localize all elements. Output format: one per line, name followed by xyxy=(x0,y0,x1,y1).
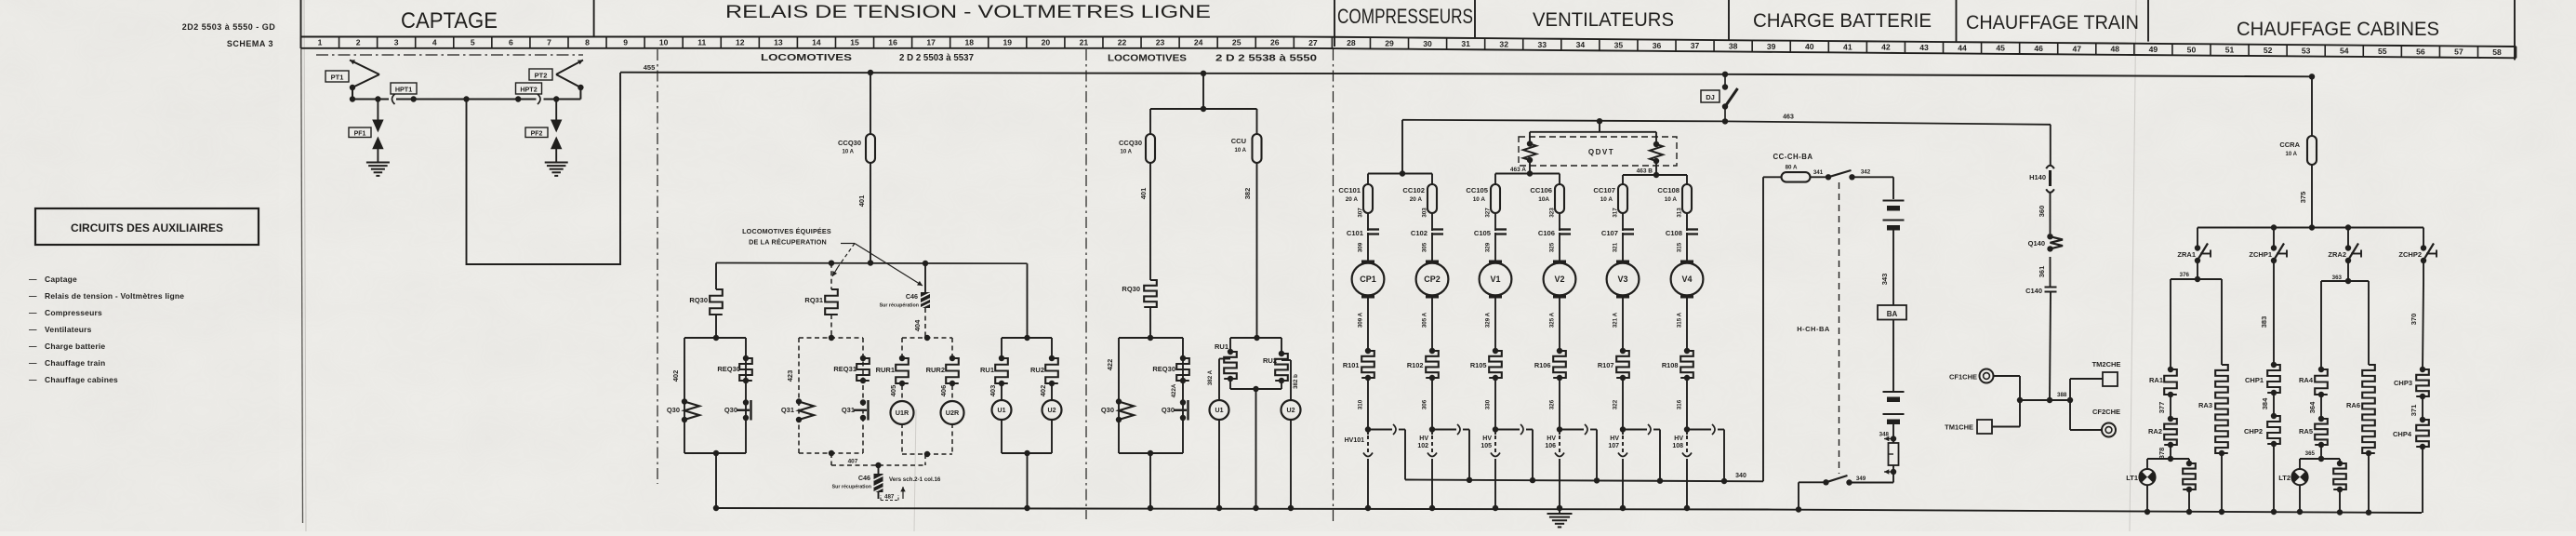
svg-text:CP1: CP1 xyxy=(1360,275,1376,284)
svg-text:RU2: RU2 xyxy=(1030,366,1044,374)
label vers sch xyxy=(889,476,941,483)
svg-text:RA3: RA3 xyxy=(2198,401,2212,409)
svg-text:10 A: 10 A xyxy=(1473,196,1486,203)
ground PF1 xyxy=(366,157,390,176)
wire 383 xyxy=(2260,261,2274,365)
wire label 455 xyxy=(644,63,656,72)
label box DJ xyxy=(1701,90,1720,102)
wire to CF1CHE xyxy=(1994,376,2050,403)
contact Q31 net1 xyxy=(854,399,869,421)
label C46 lower xyxy=(832,474,871,490)
title CHARGE BATTERIE xyxy=(1753,10,1932,32)
switch 341-342 xyxy=(1826,170,1855,181)
svg-text:326: 326 xyxy=(1549,399,1556,409)
wire 365 xyxy=(2305,445,2321,459)
label RU2 net2 xyxy=(1263,356,1277,365)
svg-text:RUR2: RUR2 xyxy=(926,366,945,374)
wire 313 xyxy=(1677,208,1688,231)
bus 463B xyxy=(1623,161,1687,184)
wire label 406 xyxy=(939,385,948,397)
svg-text:404: 404 xyxy=(913,319,922,331)
coil QDVT left xyxy=(1523,141,1536,163)
separator relais/compresseurs xyxy=(1334,0,1335,47)
contact HV V4 xyxy=(1682,430,1692,509)
svg-text:382: 382 xyxy=(1243,188,1252,200)
link arrow lower xyxy=(1884,469,1896,475)
node HV row V3 xyxy=(1620,426,1626,432)
svg-text:U2: U2 xyxy=(1048,408,1056,414)
wire 303 xyxy=(1422,208,1433,231)
label QDVT xyxy=(1588,148,1614,156)
svg-text:HV: HV xyxy=(1547,435,1556,442)
fold line left xyxy=(304,0,306,531)
wire to TM2CHE xyxy=(2050,379,2103,403)
svg-text:17: 17 xyxy=(926,38,936,47)
label H-CH-BA xyxy=(1797,325,1830,333)
box RUR dashed xyxy=(902,335,952,457)
wire 316 xyxy=(1677,378,1688,430)
svg-text:16: 16 xyxy=(888,38,897,47)
svg-text:487: 487 xyxy=(884,494,895,501)
svg-text:13: 13 xyxy=(774,38,783,47)
svg-text:106: 106 xyxy=(1545,443,1556,449)
svg-text:54: 54 xyxy=(2340,47,2349,56)
svg-text:52: 52 xyxy=(2264,46,2273,55)
svg-text:20 A: 20 A xyxy=(1410,196,1423,203)
label RQ30 net2 xyxy=(1122,285,1140,293)
svg-text:TM2CHE: TM2CHE xyxy=(2092,360,2121,368)
label HV 107 xyxy=(1608,435,1619,449)
label RQ31 net1 xyxy=(804,296,823,304)
svg-text:10 A: 10 A xyxy=(2286,152,2298,157)
svg-text:Q31: Q31 xyxy=(781,406,794,414)
capacitor C105 xyxy=(1474,229,1507,237)
resistor R108 xyxy=(1662,348,1693,381)
contact Q30 net1 xyxy=(737,399,751,421)
wire 349 to rail xyxy=(1799,482,1826,509)
legend box CIRCUITS DES AUXILIAIRES xyxy=(35,208,259,245)
svg-text:—: — xyxy=(29,375,37,384)
box Q30 net2 xyxy=(1119,335,1183,456)
title RELAIS DE TENSION - VOLTMETRES LIGNE xyxy=(725,3,1211,22)
svg-text:28: 28 xyxy=(1347,38,1356,47)
label box PF1 xyxy=(349,127,371,138)
cartridge C46 upper xyxy=(921,292,930,308)
svg-text:RU2: RU2 xyxy=(1263,356,1277,365)
coil Q31 net1 xyxy=(796,398,814,422)
svg-text:38: 38 xyxy=(1729,41,1738,50)
svg-text:CHARGE BATTERIE: CHARGE BATTERIE xyxy=(1753,10,1932,32)
svg-text:105: 105 xyxy=(1481,443,1492,449)
svg-text:35: 35 xyxy=(1614,40,1624,49)
node HV row V2 xyxy=(1557,426,1562,432)
wire 382 net2 xyxy=(1243,163,1257,338)
label 487 xyxy=(881,494,898,501)
svg-text:5: 5 xyxy=(471,38,475,47)
wire 401 net1 xyxy=(857,163,870,263)
svg-text:305 A: 305 A xyxy=(1422,312,1428,328)
coil Q140 xyxy=(2047,234,2063,252)
capacitor C106 xyxy=(1538,229,1571,237)
wire fuse drop net1 xyxy=(868,70,873,134)
svg-text:376: 376 xyxy=(2180,272,2190,278)
resistor RA1 xyxy=(2149,367,2177,397)
motor CP1 xyxy=(1352,261,1385,297)
svg-text:405: 405 xyxy=(889,385,897,397)
svg-text:Compresseurs: Compresseurs xyxy=(45,308,102,317)
svg-text:Sur récupération: Sur récupération xyxy=(880,303,919,309)
wire 384 xyxy=(2261,393,2274,416)
fuse CC101 xyxy=(1338,184,1373,213)
wire label 422 xyxy=(1106,359,1114,371)
wire label 361 xyxy=(2038,266,2046,278)
svg-text:HV: HV xyxy=(1419,435,1428,442)
resistor RQ30 net2 xyxy=(1144,280,1157,338)
wire 309 A xyxy=(1358,295,1369,351)
svg-text:382 A: 382 A xyxy=(1207,369,1214,385)
svg-text:RA5: RA5 xyxy=(2299,427,2313,435)
svg-text:25: 25 xyxy=(1232,38,1242,47)
svg-text:384: 384 xyxy=(2261,397,2269,409)
svg-text:V3: V3 xyxy=(1617,275,1627,284)
svg-text:39: 39 xyxy=(1767,42,1776,51)
svg-text:321: 321 xyxy=(1613,242,1619,252)
junction dots net1 top xyxy=(829,260,928,266)
contact HV V3 xyxy=(1618,430,1627,509)
resistor REQ30 net1 xyxy=(739,355,752,383)
wire 309 xyxy=(1358,233,1369,261)
battery BA upper xyxy=(1883,201,1905,306)
svg-text:Q30: Q30 xyxy=(1162,406,1175,414)
svg-text:RA2: RA2 xyxy=(2148,427,2162,435)
voltmeter U1R xyxy=(891,401,914,424)
svg-text:340: 340 xyxy=(1735,473,1746,479)
svg-text:CCQ30: CCQ30 xyxy=(1119,139,1142,147)
bus LT2 xyxy=(2300,456,2340,462)
box Q31 dashed net1 xyxy=(799,335,863,456)
svg-text:24: 24 xyxy=(1194,38,1203,47)
svg-text:463 A: 463 A xyxy=(1510,167,1526,173)
resistor CHP4 xyxy=(2393,417,2429,449)
capacitor C107 xyxy=(1601,229,1634,237)
svg-text:102: 102 xyxy=(1417,443,1428,449)
svg-text:306: 306 xyxy=(1422,399,1428,409)
svg-text:RU1: RU1 xyxy=(980,366,994,374)
lamp LT2 xyxy=(2278,459,2307,512)
wire 342 xyxy=(1852,169,1894,200)
wire 401 net2 xyxy=(1139,163,1150,280)
resistor R102 xyxy=(1407,348,1439,381)
node 388 xyxy=(2047,392,2067,403)
fold line middle xyxy=(914,409,916,531)
svg-text:14: 14 xyxy=(812,38,821,47)
svg-text:Ventilateurs: Ventilateurs xyxy=(45,325,92,334)
svg-text:27: 27 xyxy=(1308,38,1318,47)
capacitor C102 xyxy=(1411,229,1443,237)
svg-text:LOCOMOTIVES: LOCOMOTIVES xyxy=(1108,54,1187,64)
svg-text:401: 401 xyxy=(1139,188,1148,200)
resistor RA4 xyxy=(2299,367,2328,397)
svg-text:LT1: LT1 xyxy=(2126,474,2138,482)
bus RU net1 bottom xyxy=(1002,420,1052,507)
wire ZRA1 down xyxy=(2180,261,2198,279)
switch 349 xyxy=(1823,476,1866,486)
wire 329 A xyxy=(1485,295,1496,351)
wire 310 xyxy=(1358,378,1369,430)
svg-text:Vers sch.2-1 col.16: Vers sch.2-1 col.16 xyxy=(889,476,941,483)
wire interlock CP1 xyxy=(1368,424,1405,480)
svg-text:341: 341 xyxy=(1813,169,1824,176)
bus RU net2 bottom xyxy=(1230,379,1281,507)
svg-text:8: 8 xyxy=(585,38,590,47)
svg-text:10 A: 10 A xyxy=(1235,148,1247,154)
contact HV V2 xyxy=(1555,430,1564,509)
bus 407 dashed xyxy=(831,453,925,468)
resistor RU2 net1 xyxy=(1045,338,1058,386)
wire to CF2CHE xyxy=(2070,400,2102,430)
separator ventilateurs/charge xyxy=(1728,0,1730,41)
svg-text:23: 23 xyxy=(1156,38,1165,47)
label H140 xyxy=(2029,173,2046,181)
svg-text:Q30: Q30 xyxy=(1101,406,1114,414)
node HV row V4 xyxy=(1684,426,1690,432)
contact H140 xyxy=(2046,166,2054,234)
svg-text:RQ31: RQ31 xyxy=(804,296,823,304)
svg-text:TM1CHE: TM1CHE xyxy=(1945,423,1973,432)
svg-text:Captage: Captage xyxy=(45,275,77,284)
wire ZRA2 down xyxy=(2332,261,2348,281)
svg-text:U1: U1 xyxy=(1215,408,1224,414)
label box BA xyxy=(1878,305,1906,320)
svg-text:58: 58 xyxy=(2492,47,2502,57)
shunt resistor LT2 xyxy=(2333,459,2346,512)
connector TM1CHE xyxy=(1945,420,1992,434)
annotation arrow to C46 xyxy=(855,244,923,287)
fuse CC107 xyxy=(1593,184,1627,213)
svg-text:ZCHP2: ZCHP2 xyxy=(2398,250,2422,259)
bus 463A xyxy=(1495,160,1560,184)
resistor REQ30 net2 xyxy=(1176,355,1189,383)
label Q30coil net2 xyxy=(1101,406,1114,414)
svg-text:CC-CH-BA: CC-CH-BA xyxy=(1773,153,1813,161)
wire 371 xyxy=(2410,396,2423,420)
node HV row CP1 xyxy=(1365,426,1371,432)
wire label 360 xyxy=(2038,206,2046,218)
svg-text:C107: C107 xyxy=(1601,229,1618,237)
svg-text:342: 342 xyxy=(1861,169,1871,176)
svg-text:49: 49 xyxy=(2149,45,2158,54)
box Q30 net1 xyxy=(684,335,746,456)
label HV 105 xyxy=(1481,435,1492,449)
svg-text:HV: HV xyxy=(1610,435,1619,442)
svg-text:C105: C105 xyxy=(1474,229,1492,237)
resistor REQ31 net1 xyxy=(856,355,870,383)
svg-text:CHP2: CHP2 xyxy=(2244,427,2263,435)
svg-text:CHP1: CHP1 xyxy=(2245,376,2264,384)
separator right border xyxy=(2514,0,2516,60)
wire 377 xyxy=(2158,395,2171,419)
svg-text:322: 322 xyxy=(1613,399,1619,409)
cabins distribution bus xyxy=(2198,224,2423,230)
svg-text:371: 371 xyxy=(2410,405,2418,417)
svg-text:CCQ30: CCQ30 xyxy=(838,139,861,147)
svg-text:309 A: 309 A xyxy=(1358,312,1364,328)
wire 326 xyxy=(1549,378,1560,430)
svg-text:CHP4: CHP4 xyxy=(2393,430,2412,438)
wire 329 xyxy=(1485,233,1496,261)
svg-text:388: 388 xyxy=(2057,392,2067,398)
bus net1 top xyxy=(716,262,1028,265)
svg-text:REQ30: REQ30 xyxy=(1152,365,1175,373)
wire net2 feeder xyxy=(1201,71,1206,109)
svg-text:CC108: CC108 xyxy=(1657,186,1680,194)
bus 340 xyxy=(1405,177,1763,484)
zone divider col27 xyxy=(1333,49,1334,521)
contact HV CP2 xyxy=(1427,430,1437,509)
label box PT2 xyxy=(529,69,552,80)
link arrow upper xyxy=(1884,435,1896,441)
label HV 106 xyxy=(1545,435,1556,449)
motor CP2 xyxy=(1416,261,1449,297)
tap U1 net2 xyxy=(1207,359,1230,401)
wire to RA1 xyxy=(2170,279,2171,369)
fuse CCQ30 net1 xyxy=(838,134,875,163)
label REQ30 net2 xyxy=(1152,365,1175,373)
svg-text:U1R: U1R xyxy=(896,409,910,417)
coil Q30 net1 xyxy=(682,398,699,422)
label Q30contact net2 xyxy=(1162,406,1175,414)
shunt resistor LT1 xyxy=(2183,459,2196,512)
bus LT1 xyxy=(2147,456,2189,462)
wire 341 xyxy=(1811,169,1829,177)
subtitle locomotives 5503 xyxy=(761,53,974,63)
title CHAUFFAGE TRAIN xyxy=(1966,12,2139,33)
fuse CCQ30 net2 xyxy=(1119,134,1155,163)
svg-text:15: 15 xyxy=(850,38,859,47)
resistor CHP3 xyxy=(2394,367,2429,399)
wire to RA4 xyxy=(2320,281,2322,369)
voltmeter U1 net1 xyxy=(992,383,1012,420)
svg-text:2 D 2 5538 à 5550: 2 D 2 5538 à 5550 xyxy=(1215,54,1318,64)
separator charge/chauffage train xyxy=(1956,0,1958,43)
svg-text:—: — xyxy=(29,325,37,334)
column strip xyxy=(301,37,2516,59)
svg-text:406: 406 xyxy=(939,385,948,397)
svg-text:C140: C140 xyxy=(2025,287,2042,295)
label C46 upper xyxy=(880,292,919,309)
contact Q30 net2 xyxy=(1174,399,1188,421)
svg-text:ZRA1: ZRA1 xyxy=(2177,250,2196,259)
svg-text:330: 330 xyxy=(1485,399,1492,409)
resistor RA6 xyxy=(2346,365,2375,512)
annotation arrow to RQ31 xyxy=(832,244,855,277)
label box PF2 xyxy=(525,127,548,138)
tap U2 net2 xyxy=(1281,360,1299,400)
svg-text:CCU: CCU xyxy=(1231,137,1246,145)
svg-text:RUR1: RUR1 xyxy=(876,366,895,374)
wire 305 xyxy=(1422,233,1433,261)
svg-text:22: 22 xyxy=(1118,38,1127,47)
svg-text:V4: V4 xyxy=(1681,275,1692,284)
svg-text:26: 26 xyxy=(1270,38,1280,47)
svg-text:Q140: Q140 xyxy=(2028,239,2045,248)
label Q30coil net1 xyxy=(667,406,680,414)
svg-text:48: 48 xyxy=(2111,45,2120,54)
resistor R106 xyxy=(1534,348,1566,381)
label box HPT2 xyxy=(516,83,542,94)
label RU1 net2 xyxy=(1215,342,1228,351)
svg-text:R105: R105 xyxy=(1470,361,1487,369)
wire interlock CP2 xyxy=(1432,424,1469,480)
svg-text:CC106: CC106 xyxy=(1530,186,1552,194)
svg-text:V2: V2 xyxy=(1554,275,1564,284)
svg-text:H-CH-BA: H-CH-BA xyxy=(1797,325,1830,333)
ground PF2 xyxy=(545,157,568,176)
svg-text:CHAUFFAGE CABINES: CHAUFFAGE CABINES xyxy=(2237,19,2439,40)
label RUR1 xyxy=(876,366,895,374)
svg-text:C46: C46 xyxy=(906,292,918,301)
legend list xyxy=(29,275,184,384)
svg-text:37: 37 xyxy=(1691,41,1700,50)
wire 330 xyxy=(1485,378,1496,430)
svg-text:Q31: Q31 xyxy=(842,406,855,414)
svg-text:U1: U1 xyxy=(998,408,1006,414)
wire interlock V4 xyxy=(1687,424,1724,480)
svg-text:47: 47 xyxy=(2072,44,2081,53)
svg-text:6: 6 xyxy=(509,38,513,47)
wire 375 xyxy=(2299,165,2312,228)
label RQ30 net1 xyxy=(689,296,708,304)
svg-text:1: 1 xyxy=(318,38,323,47)
svg-text:364: 364 xyxy=(2308,401,2317,413)
wire 315 A xyxy=(1677,295,1688,351)
svg-text:9: 9 xyxy=(623,38,628,47)
resistor R101 xyxy=(1343,348,1374,381)
svg-text:HPT2: HPT2 xyxy=(520,86,537,94)
title CAPTAGE xyxy=(401,8,498,33)
wire 404 dashed xyxy=(913,308,925,338)
svg-text:Q30: Q30 xyxy=(667,406,680,414)
svg-text:LOCOMOTIVES: LOCOMOTIVES xyxy=(761,53,852,63)
svg-text:HPT1: HPT1 xyxy=(395,86,412,94)
coil Q30 net2 xyxy=(1116,398,1134,422)
svg-text:31: 31 xyxy=(1461,39,1470,48)
wire label 403 net1 xyxy=(989,385,997,397)
svg-text:RQ30: RQ30 xyxy=(1122,285,1140,293)
motor V4 xyxy=(1671,261,1704,297)
svg-text:Q30: Q30 xyxy=(724,406,737,414)
svg-text:R107: R107 xyxy=(1598,361,1614,369)
bus RU net2 top xyxy=(1230,335,1281,341)
wire 321 xyxy=(1613,233,1624,261)
label RUR2 xyxy=(926,366,945,374)
svg-text:422: 422 xyxy=(1106,359,1114,371)
arrow vers sch xyxy=(900,487,905,499)
wire 327 xyxy=(1485,208,1496,231)
label RU1 net1 xyxy=(980,366,994,374)
wire to RA6 xyxy=(2368,281,2370,365)
label HV101 xyxy=(1345,437,1365,444)
box QDVT dashed xyxy=(1519,137,1677,166)
svg-text:RA6: RA6 xyxy=(2346,401,2360,409)
svg-text:329: 329 xyxy=(1485,242,1492,252)
svg-text:305: 305 xyxy=(1422,242,1428,252)
wire bus455 to CCRA xyxy=(2309,74,2315,136)
label RU2 net1 xyxy=(1030,366,1044,374)
svg-text:CP2: CP2 xyxy=(1424,275,1441,284)
resistor CHP2 xyxy=(2244,413,2280,447)
left border xyxy=(301,0,303,523)
